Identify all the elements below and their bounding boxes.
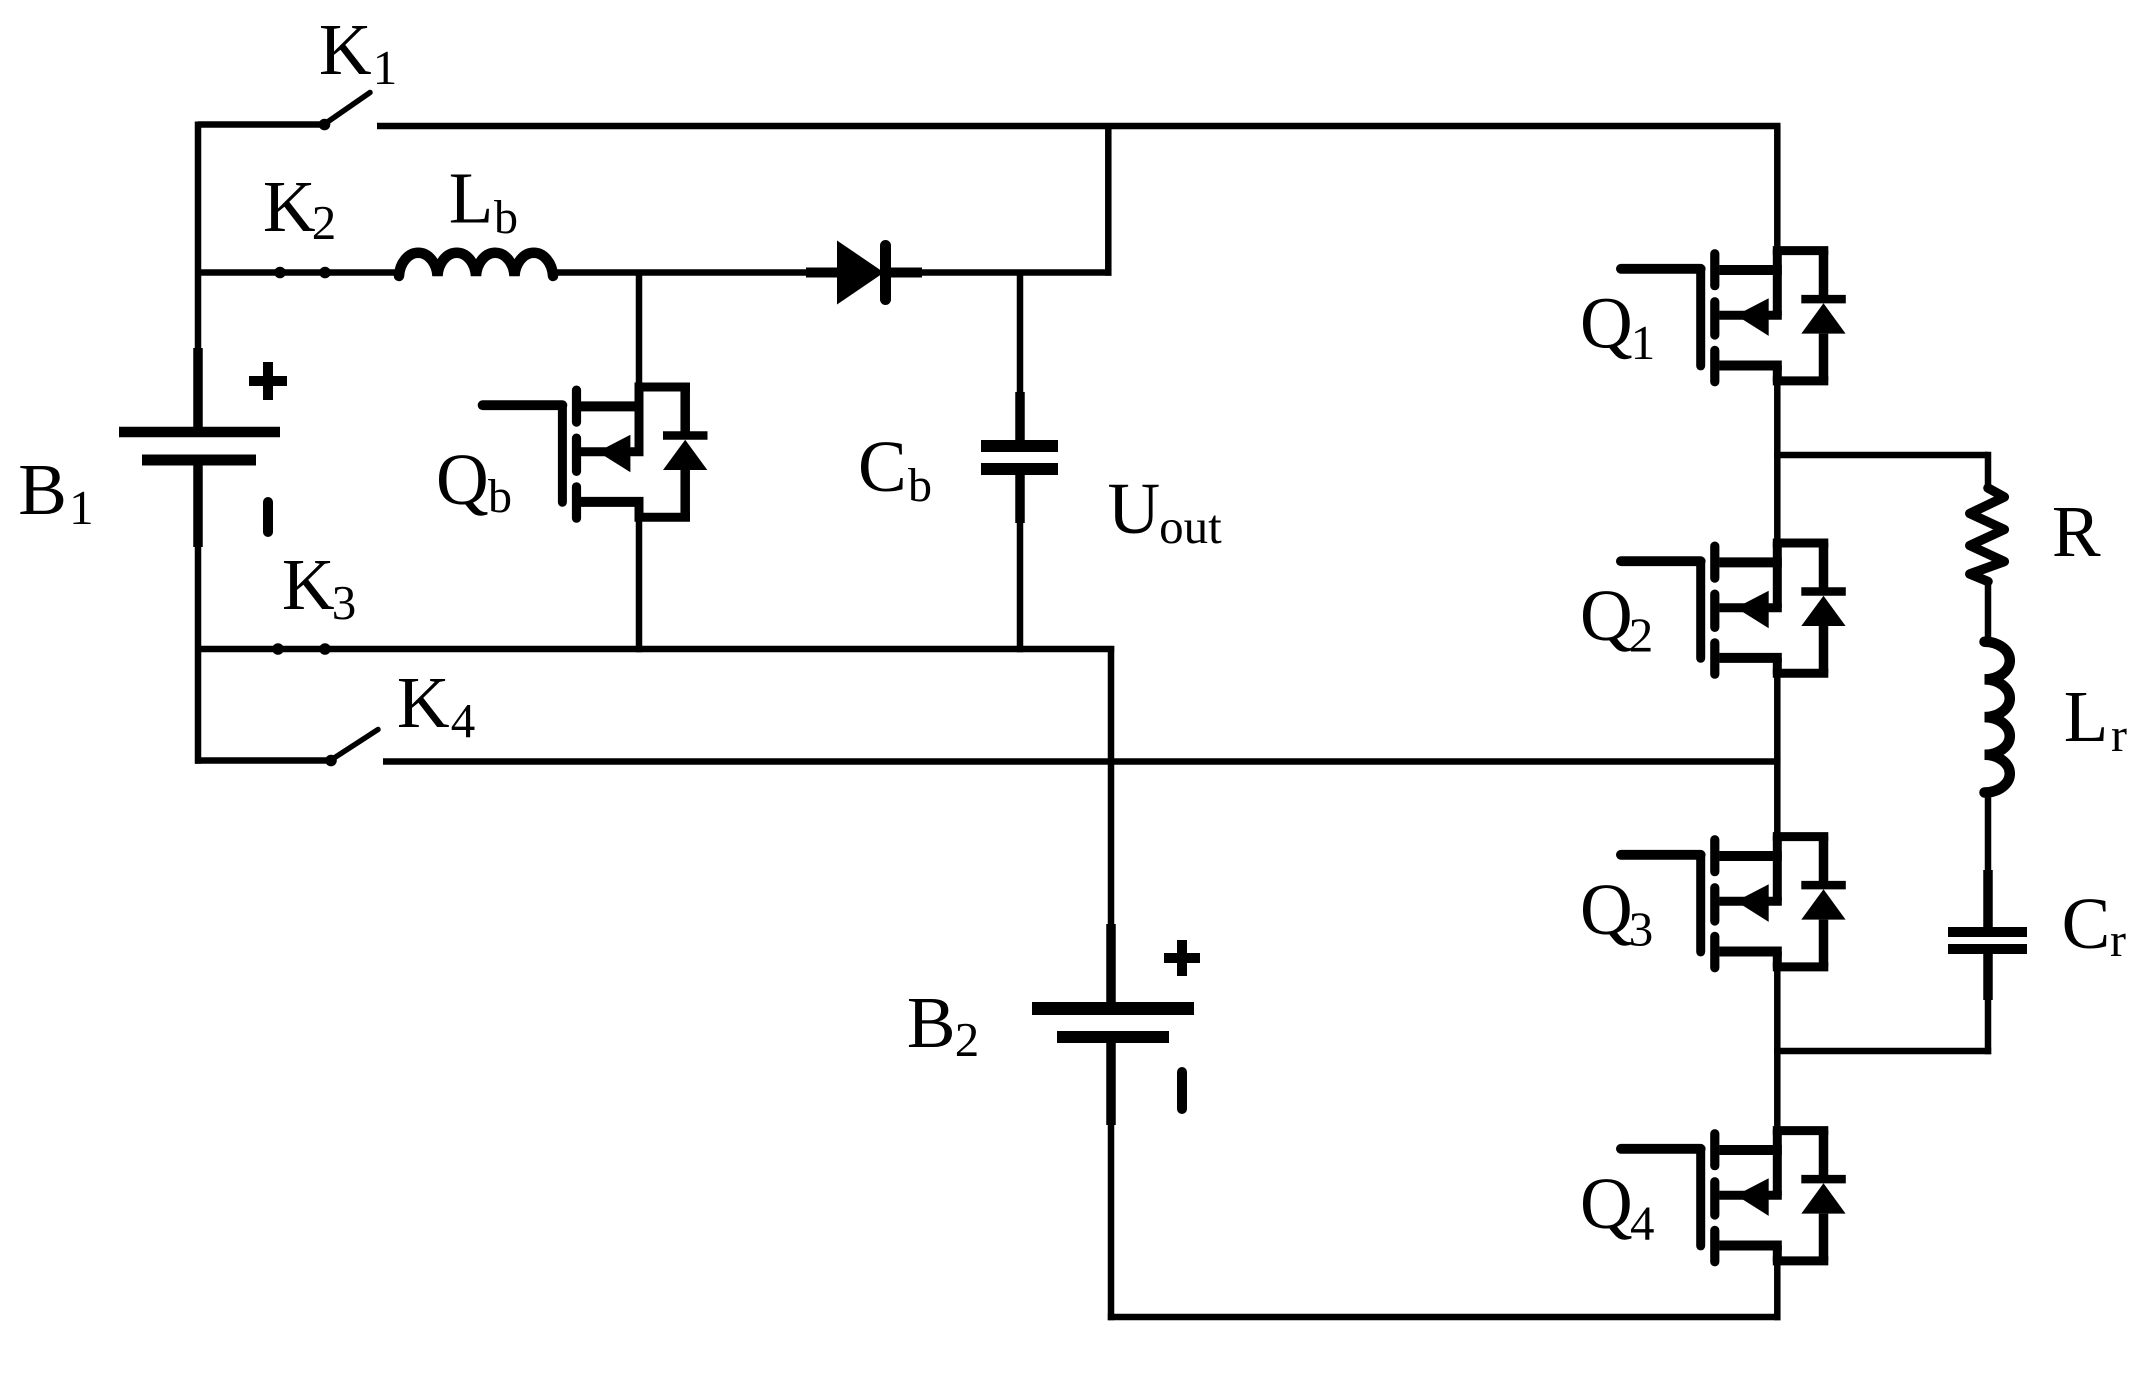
wire bridge Q3-Q4 — [1774, 965, 1781, 1132]
svg-text:B: B — [18, 449, 67, 530]
svg-text:B: B — [907, 982, 956, 1063]
wire B2 top lead — [1108, 646, 1115, 926]
label Lb — [449, 158, 518, 245]
inductor Lb — [399, 253, 553, 276]
svg-text:2: 2 — [312, 195, 337, 250]
switch K4 — [325, 730, 378, 767]
wire second rail left of Lb — [198, 269, 401, 276]
label Q3 — [1580, 869, 1653, 957]
svg-text:K: K — [282, 544, 335, 625]
wire bridge Q2 to bottom rail — [1774, 672, 1781, 762]
svg-text:2: 2 — [955, 1012, 980, 1067]
label K1 — [319, 9, 397, 95]
wire Qb drain — [636, 270, 643, 390]
wire node A to R branch — [1774, 452, 1988, 459]
wire bridge bottom rail to Q3 — [1774, 758, 1781, 838]
switch K2 contacts — [274, 267, 331, 279]
label K2 — [263, 166, 336, 250]
svg-text:1: 1 — [1631, 315, 1656, 370]
wire left rail lower — [195, 543, 202, 764]
wire second rail right of diode — [918, 269, 1112, 276]
svg-text:Q: Q — [1580, 575, 1633, 656]
inductor Lr — [1985, 642, 2010, 793]
svg-text:4: 4 — [1630, 1196, 1655, 1251]
wire bottom return rail — [1108, 1314, 1781, 1321]
label Uout — [1108, 468, 1223, 554]
svg-text:r: r — [2110, 914, 2126, 967]
svg-text:r: r — [2111, 709, 2127, 762]
battery B2 — [1032, 924, 1200, 1125]
svg-text:K: K — [319, 9, 372, 90]
wire bridge above Q1 — [1774, 125, 1781, 253]
svg-text:C: C — [858, 426, 907, 507]
label Q1 — [1580, 283, 1655, 371]
battery B1 — [119, 348, 287, 547]
svg-text:Q: Q — [1580, 869, 1633, 950]
svg-text:L: L — [449, 158, 494, 239]
capacitor Cr — [1948, 870, 2027, 1000]
svg-text:2: 2 — [1629, 608, 1654, 663]
svg-text:out: out — [1159, 499, 1222, 554]
svg-text:1: 1 — [373, 40, 398, 95]
wire top rail right of K1 — [377, 123, 1781, 130]
wire riser to top rail — [1105, 125, 1112, 276]
label Cb — [858, 426, 932, 512]
svg-text:b: b — [908, 459, 932, 512]
resistor R — [1970, 488, 2005, 582]
wire left rail upper — [195, 122, 202, 351]
transistor Q3 — [1621, 836, 1846, 968]
svg-text:K: K — [397, 662, 450, 743]
label B2 — [907, 982, 979, 1067]
capacitor Cb — [981, 392, 1058, 523]
label K4 — [397, 662, 475, 748]
label Qb — [436, 439, 512, 523]
wire Lr to Cr — [1985, 792, 1992, 872]
svg-text:3: 3 — [332, 575, 357, 630]
svg-text:4: 4 — [451, 693, 476, 748]
label B1 — [18, 449, 93, 535]
svg-text:b: b — [488, 470, 512, 523]
svg-text:R: R — [2052, 491, 2101, 572]
label K3 — [282, 544, 356, 630]
wire second rail Lb to diode — [552, 269, 809, 276]
svg-text:K: K — [263, 166, 316, 247]
wire bottom rail right of K4 — [383, 758, 1781, 765]
transistor Qb — [483, 386, 708, 518]
diode D boost — [806, 241, 922, 305]
label Cr — [2062, 883, 2126, 967]
transistor Q1 — [1621, 250, 1846, 382]
switch K1 — [319, 93, 370, 131]
svg-text:U: U — [1108, 468, 1161, 549]
transistor Q2 — [1621, 542, 1846, 674]
wire Cr branch return — [1774, 1048, 1991, 1055]
wire Cb top lead — [1017, 270, 1024, 395]
wire bridge Q1-Q2 — [1774, 380, 1781, 545]
svg-text:1: 1 — [69, 480, 94, 535]
wire Cr bottom thin — [1985, 998, 1992, 1054]
wire R to Lr — [1985, 578, 1992, 644]
label Q2 — [1580, 575, 1653, 663]
transistor Q4 — [1621, 1130, 1846, 1262]
svg-text:Q: Q — [1580, 1163, 1633, 1244]
label Lr — [2064, 676, 2127, 762]
wire top rail left of K1 — [198, 121, 321, 128]
wire bottom rail left of K4 — [195, 757, 326, 764]
svg-text:C: C — [2062, 883, 2111, 964]
wire B2 bottom lead — [1108, 1123, 1115, 1320]
svg-text:L: L — [2064, 676, 2109, 757]
label Q4 — [1580, 1163, 1655, 1251]
svg-text:Q: Q — [1580, 283, 1633, 364]
wire Cb bottom lead — [1017, 521, 1024, 652]
wire K3 rail — [198, 646, 1114, 653]
svg-text:b: b — [494, 191, 518, 244]
wire bridge below Q4 — [1774, 1259, 1781, 1320]
wire Qb source — [636, 516, 643, 652]
svg-text:3: 3 — [1629, 902, 1654, 957]
wire R branch top — [1985, 452, 1992, 491]
switch K3 contacts — [272, 643, 331, 655]
svg-text:Q: Q — [436, 439, 489, 520]
